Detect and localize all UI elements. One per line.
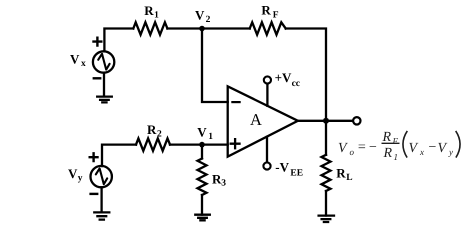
wire Vx top to R1	[104, 29, 133, 52]
svg-text:3: 3	[221, 178, 226, 188]
svg-text:V: V	[197, 124, 207, 139]
svg-text:1: 1	[394, 152, 399, 162]
minus sign of Vy	[91, 193, 98, 195]
node output junction dot	[323, 118, 329, 124]
svg-text:V: V	[68, 166, 78, 181]
op-amp U A triangle	[228, 86, 298, 156]
svg-text:L: L	[346, 173, 352, 183]
svg-text:y: y	[448, 147, 453, 157]
svg-text:o: o	[350, 147, 355, 157]
svg-text:−: −	[428, 140, 437, 155]
equation Vo = -RF/R1 (Vx - Vy)	[338, 130, 460, 162]
svg-text:R: R	[144, 3, 154, 18]
ground under R3	[195, 215, 210, 221]
wire R1 to RF through node V2	[167, 27, 249, 29]
source Vy circle	[91, 166, 112, 187]
wire R2 to non-inverting input through node V1	[170, 143, 228, 145]
resistor R3	[198, 159, 207, 196]
wire RL to ground	[325, 191, 327, 216]
svg-text:y: y	[78, 173, 83, 183]
ground under Vx	[97, 73, 112, 103]
plus sign of Vx	[94, 38, 102, 46]
source Vx circle	[93, 51, 114, 72]
svg-text:V: V	[438, 141, 448, 156]
wire op-amp output	[298, 120, 353, 122]
ground under RL	[319, 216, 334, 222]
resistor RF	[250, 22, 286, 34]
wire V2 down to inverting input	[202, 29, 228, 103]
plus sign of Vy	[90, 153, 98, 161]
svg-text:V: V	[409, 141, 419, 156]
resistor R2	[136, 138, 170, 150]
resistor R1	[133, 22, 167, 34]
source Vy sine wave	[96, 168, 107, 184]
svg-text:cc: cc	[292, 79, 300, 89]
svg-text:−: −	[368, 140, 377, 155]
wire output junction down to RL	[325, 121, 327, 155]
svg-text:EE: EE	[290, 169, 303, 179]
terminal -VEE circle	[263, 162, 270, 169]
wire -VEE stem	[266, 137, 268, 163]
wire +Vcc stem	[266, 84, 268, 106]
plus sign at non-inverting input	[231, 139, 240, 148]
svg-text:V: V	[195, 7, 205, 22]
terminal output circle	[353, 117, 360, 124]
svg-text:R: R	[261, 3, 271, 18]
svg-text:R: R	[147, 122, 157, 137]
minus sign of Vx	[94, 77, 100, 79]
svg-text:x: x	[419, 147, 424, 157]
node V2 junction dot	[199, 26, 205, 32]
svg-text:V: V	[70, 51, 80, 66]
svg-text:1: 1	[154, 10, 159, 20]
svg-text:2: 2	[206, 15, 211, 25]
svg-text:+V: +V	[275, 70, 292, 85]
svg-text:=: =	[357, 140, 366, 155]
terminal +Vcc circle	[264, 76, 271, 83]
wire RF to output junction	[286, 29, 326, 121]
svg-text:A: A	[250, 110, 262, 129]
source Vx sine wave	[98, 54, 109, 70]
svg-text:x: x	[81, 59, 86, 69]
svg-text:1: 1	[208, 132, 213, 142]
resistor RL	[322, 155, 331, 191]
svg-text:V: V	[338, 141, 348, 156]
svg-text:-V: -V	[275, 159, 289, 174]
svg-text:F: F	[273, 10, 279, 20]
svg-text:R: R	[336, 166, 346, 181]
node V1 junction dot	[199, 142, 205, 148]
svg-text:2: 2	[157, 130, 162, 140]
wire V1 down to R3	[201, 145, 203, 159]
wire Vy to R2	[102, 145, 136, 167]
minus sign at inverting input	[232, 101, 239, 103]
svg-text:F: F	[392, 136, 399, 146]
svg-text:R: R	[383, 146, 393, 161]
ground under Vy	[94, 187, 109, 219]
wire R3 to ground	[201, 195, 203, 215]
